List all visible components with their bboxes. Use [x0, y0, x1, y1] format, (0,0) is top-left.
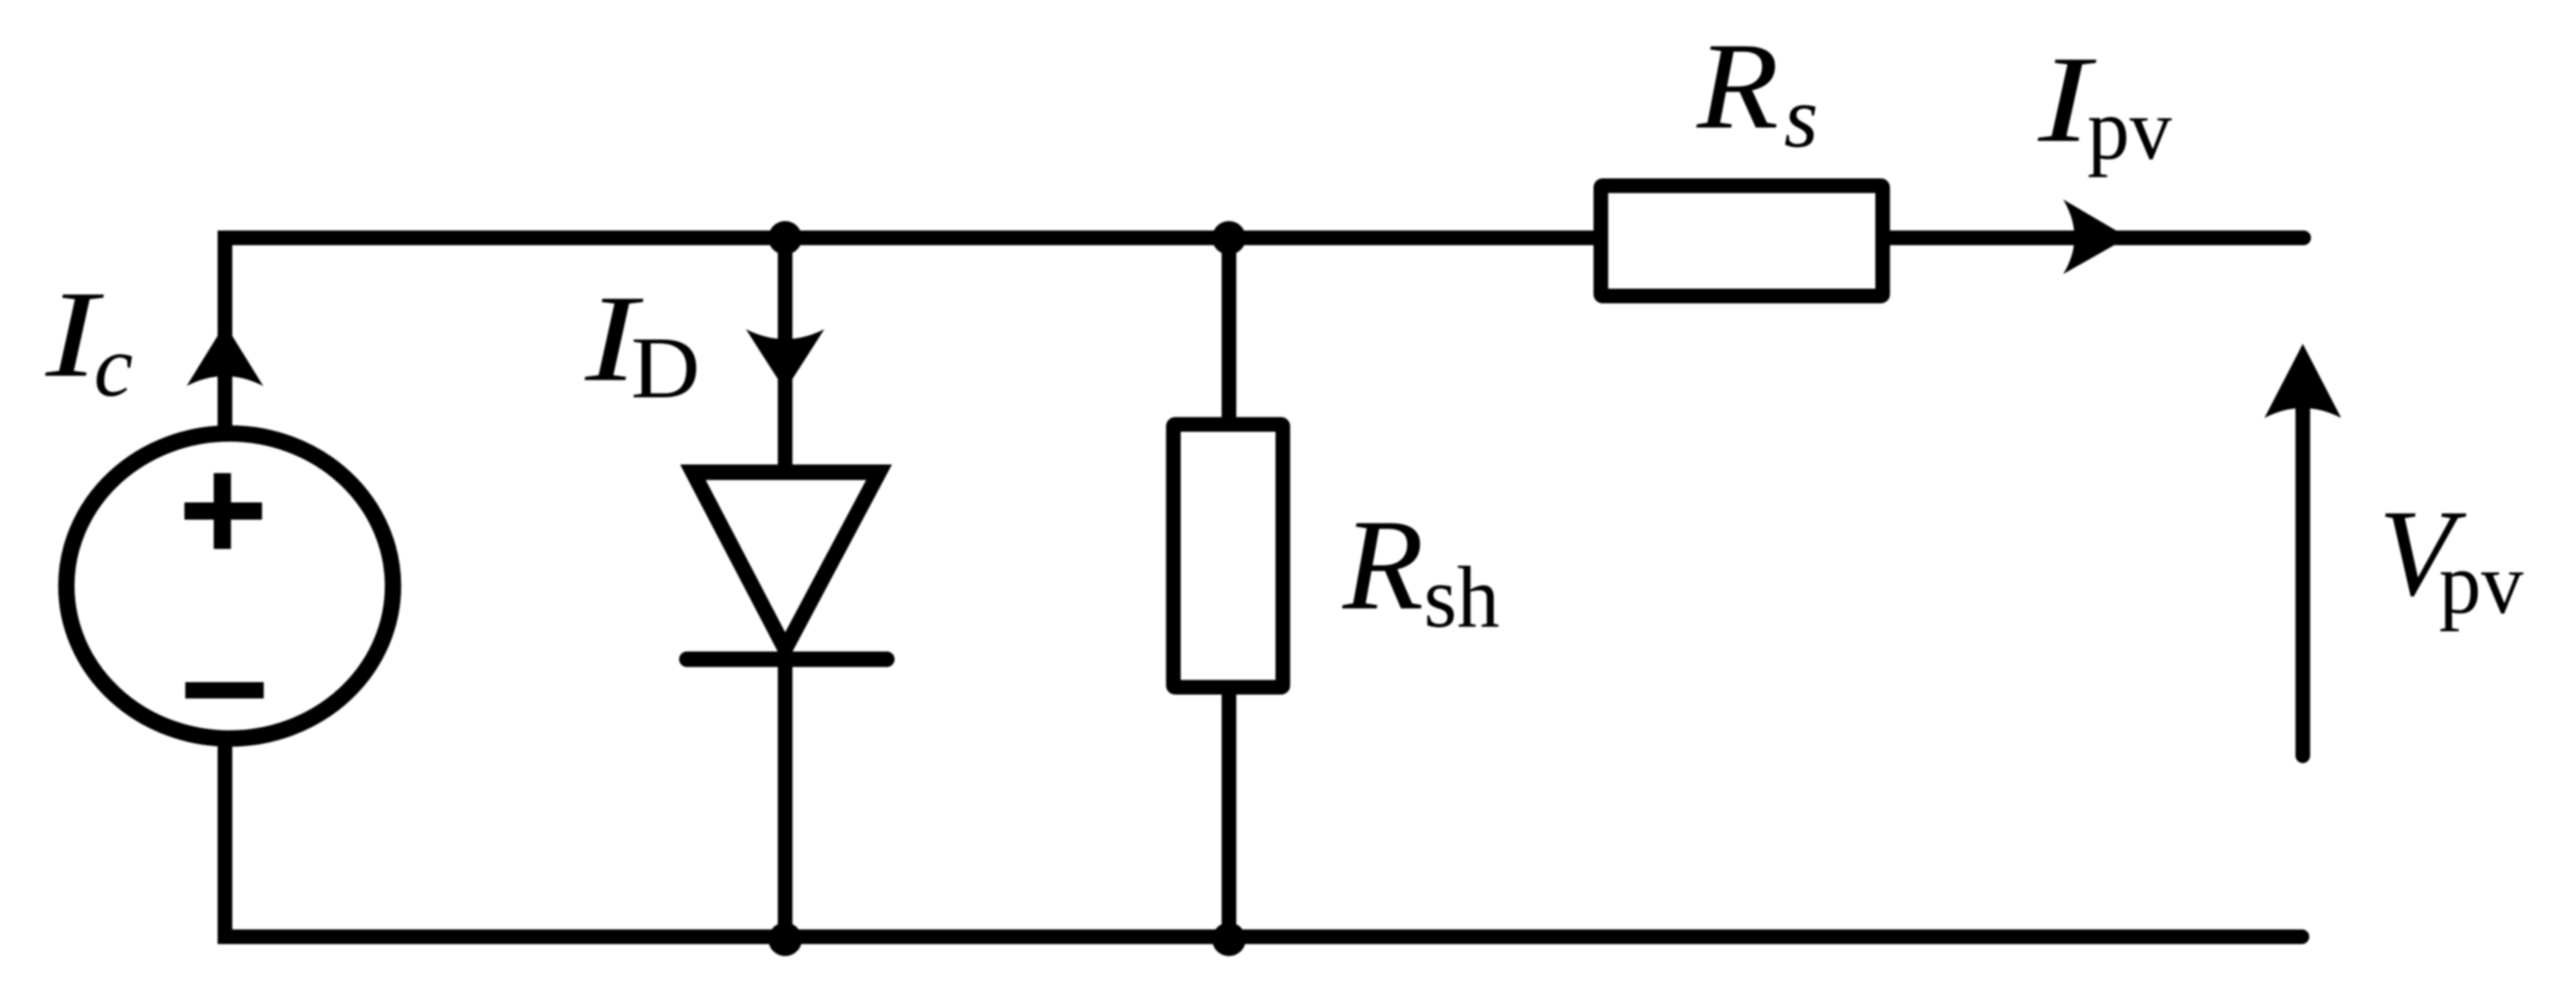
svg-text:pv: pv	[2087, 80, 2172, 178]
Vpv reference arrow line	[2296, 362, 2311, 756]
svg-text:s: s	[1784, 69, 1818, 166]
wire diode branch lower	[778, 659, 793, 937]
ID current arrow	[746, 329, 825, 390]
Vpv reference arrow head	[2265, 344, 2342, 418]
node junction dot top-left	[769, 221, 802, 255]
node junction dot bottom-right	[1213, 923, 1246, 957]
svg-text:R: R	[1342, 492, 1424, 636]
current source minus sign	[185, 683, 264, 699]
svg-text:c: c	[94, 318, 133, 415]
wire top rail with left drop	[225, 238, 2304, 426]
diode D1 cathode bar	[687, 651, 887, 667]
wire Rsh branch lower	[1222, 681, 1237, 937]
wire bottom rail with left rise	[225, 747, 2302, 937]
Ipv current arrow	[2063, 200, 2128, 275]
resistor Rsh body	[1174, 425, 1283, 688]
Ic current arrow	[187, 324, 264, 386]
wire diode branch upper	[778, 238, 793, 472]
wire Rsh branch upper	[1222, 238, 1237, 431]
svg-text:R: R	[1696, 17, 1779, 154]
svg-text:D: D	[631, 320, 700, 417]
node junction dot top-right	[1213, 221, 1246, 255]
current source Ic circle	[66, 433, 393, 739]
node junction dot bottom-left	[769, 923, 802, 957]
svg-text:sh: sh	[1424, 548, 1500, 646]
svg-text:pv: pv	[2439, 534, 2523, 632]
diode D1 triangle	[693, 472, 879, 649]
resistor Rs body	[1601, 186, 1883, 296]
current source plus sign	[184, 473, 262, 549]
